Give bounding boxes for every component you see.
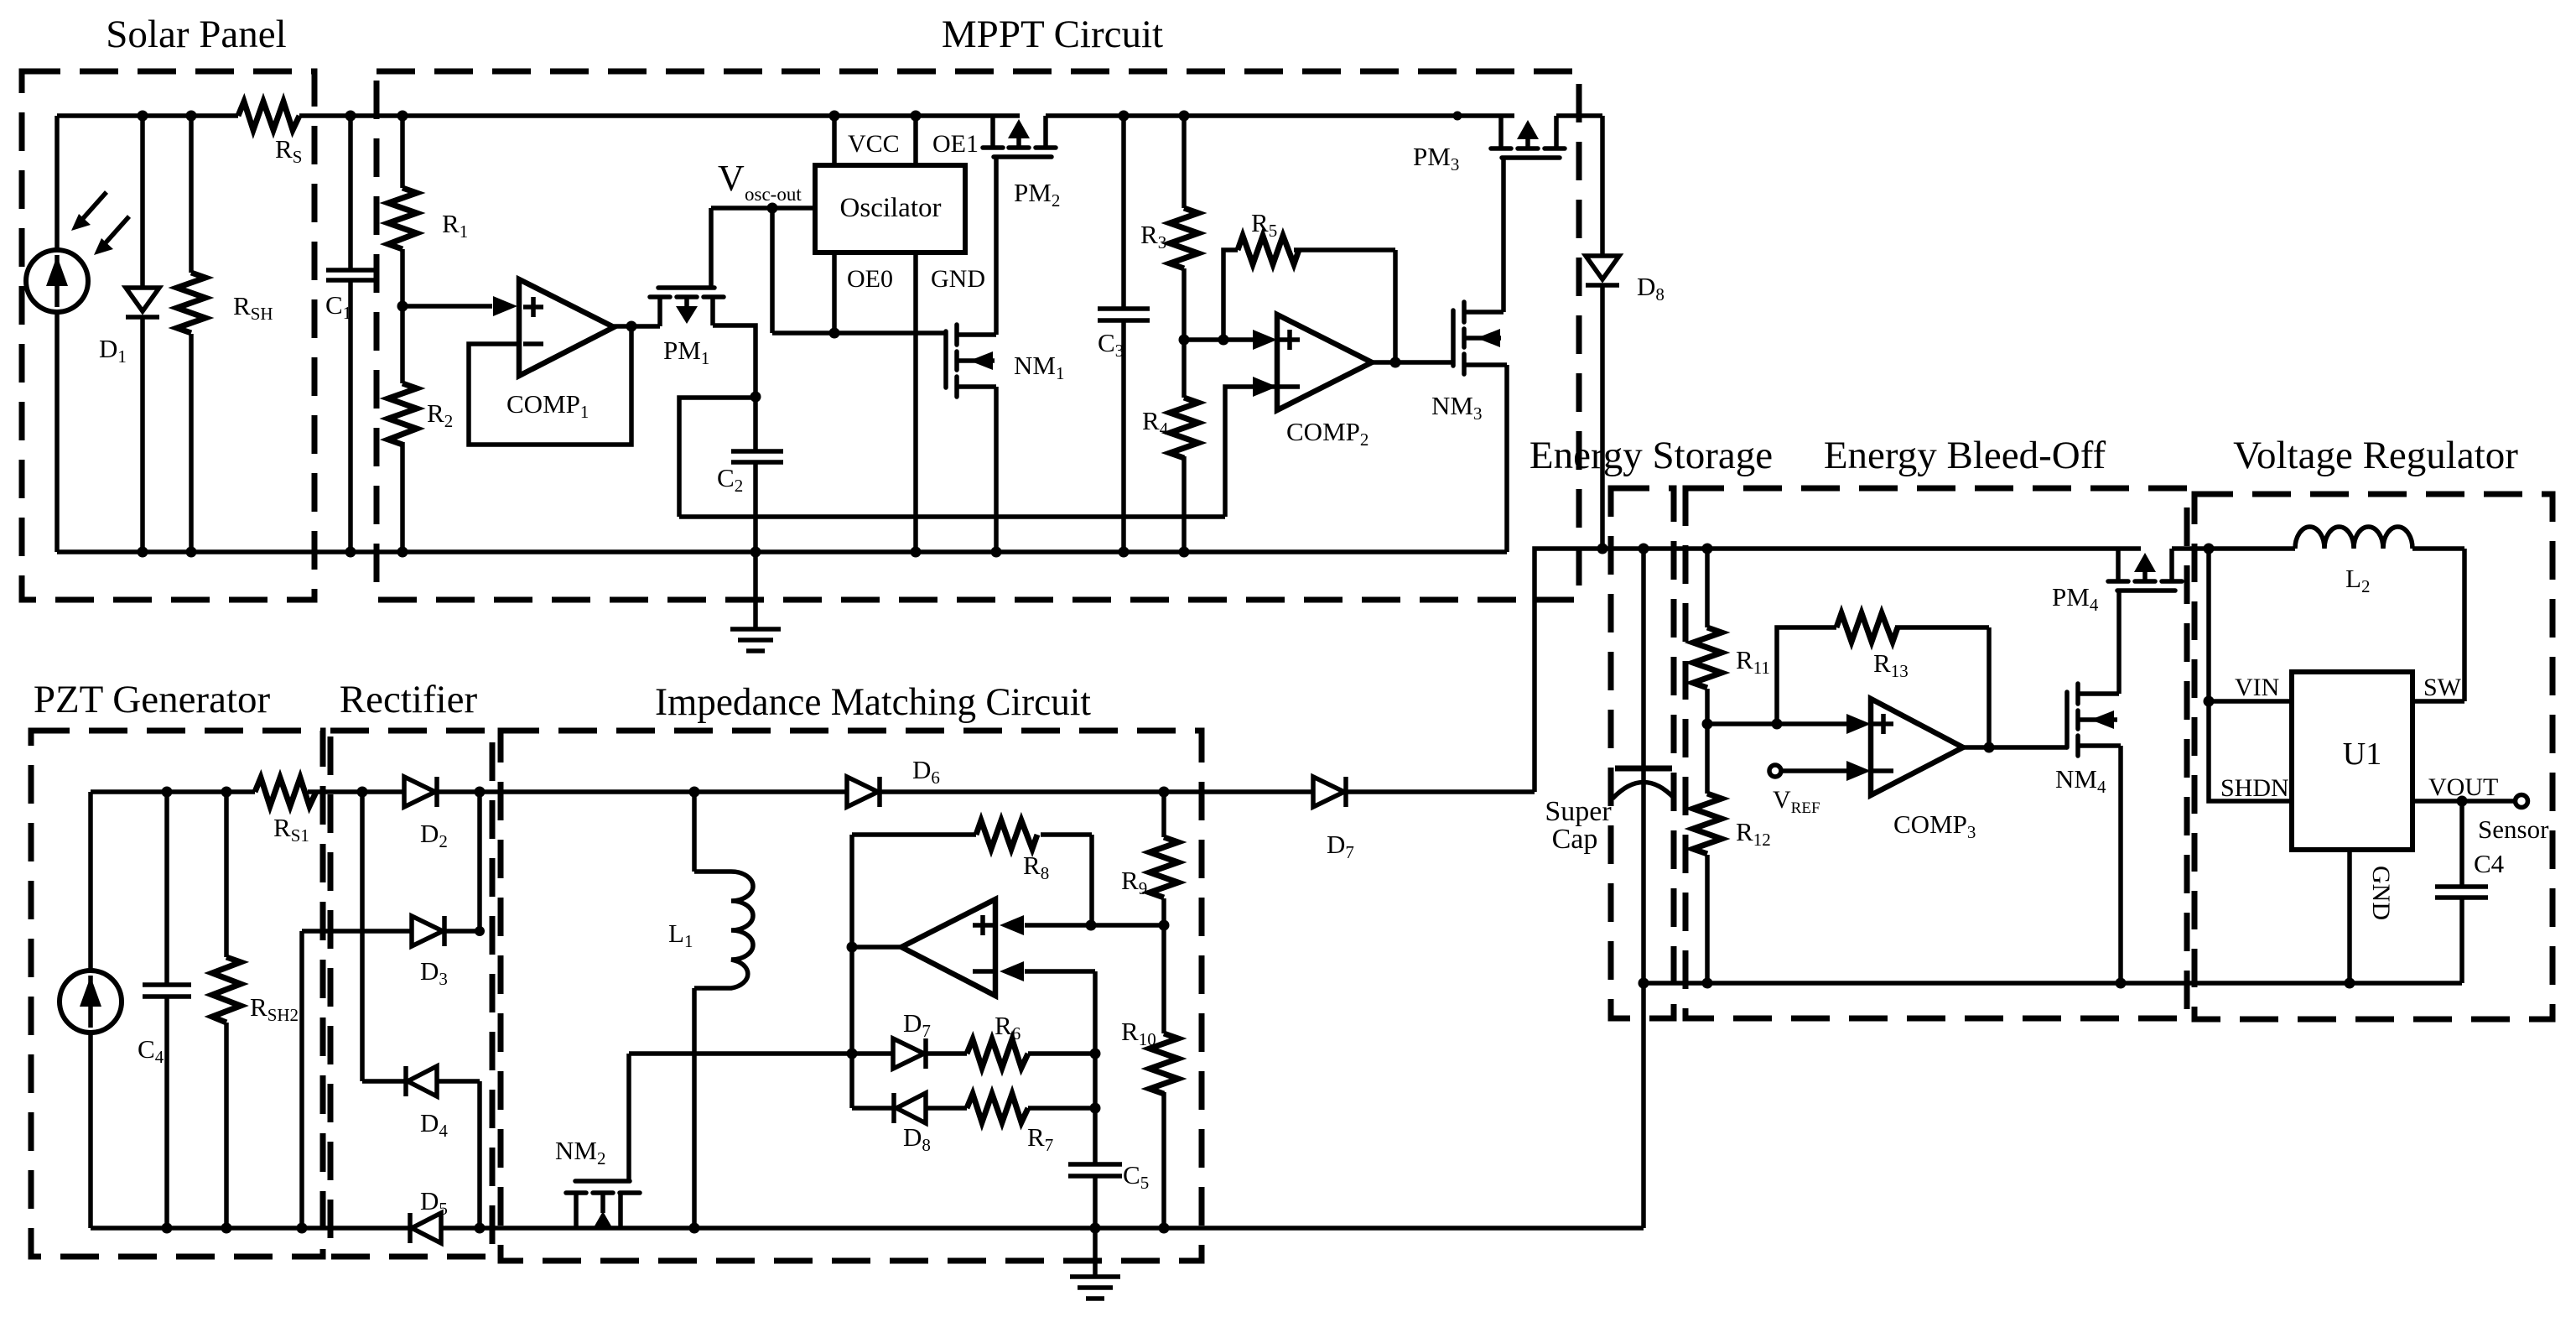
- wire D2 cathode to D3 cathode: [477, 792, 482, 931]
- node COMP1 output: [626, 321, 637, 332]
- node R11 at storage rail: [1702, 544, 1713, 554]
- svg-text:U1: U1: [2343, 736, 2381, 772]
- wire COMP1 feedback loop (output to minus input): [469, 327, 631, 445]
- super capacitor (energy storage): [1613, 549, 1675, 983]
- resistor R12: [1693, 724, 1722, 983]
- current source I1 (solar cell): [26, 116, 88, 552]
- node R7 right: [1090, 1103, 1101, 1114]
- arrowhead COMP3 minus input: [1846, 761, 1871, 781]
- wire COMP2 minus loop: [1225, 387, 1277, 517]
- wire NM4 drain to PM4 gate: [2116, 591, 2122, 694]
- node R10 at rail: [1159, 1223, 1170, 1234]
- transistor PM2 (PMOS): [983, 116, 1056, 157]
- diode D5: [410, 1213, 441, 1243]
- wire C2 bottom to COMP2 minus loop: [679, 514, 1225, 519]
- node D3 cathode: [475, 926, 485, 936]
- MPPT Circuit dashed box: [377, 71, 1579, 600]
- node C5 at rail: [1090, 1223, 1101, 1234]
- svg-text:Voltage Regulator: Voltage Regulator: [2233, 434, 2518, 477]
- wire op-amp plus input (impedance): [1025, 923, 1164, 928]
- svg-text:Energy Bleed-Off: Energy Bleed-Off: [1824, 434, 2106, 477]
- transistor PM1 (PMOS): [650, 208, 724, 326]
- junction dots solar bottom rail: [138, 547, 408, 558]
- wire NM1 drain to PM2 gate: [994, 157, 999, 335]
- arrowhead COMP2 plus input: [1253, 330, 1277, 350]
- Impedance Matching Circuit dashed box: [501, 731, 1202, 1261]
- transistor NM4 (NMOS): [2067, 684, 2121, 983]
- wire D4 anode to D5 anode: [477, 1081, 482, 1228]
- node COMP3 output / R13: [1984, 742, 1995, 753]
- node A (R1-R2 divider tap): [397, 301, 408, 312]
- node on top rail near PM3: [1453, 112, 1462, 121]
- wire COMP3 plus input: [1707, 721, 1847, 726]
- wire PM1 drain to C2: [713, 325, 756, 397]
- wire D3 anode to ground rail: [299, 931, 304, 1228]
- ground (impedance circuit): [1070, 1228, 1120, 1299]
- wire PM4 drain to regulator input: [2172, 546, 2295, 551]
- terminal Sensor: [2516, 795, 2528, 808]
- node C2 at bottom rail: [750, 547, 761, 558]
- diode D1: [126, 116, 159, 552]
- transistor NM2 (NMOS): [566, 1054, 640, 1229]
- terminal VREF: [1769, 765, 1847, 777]
- resistor RSH: [177, 116, 205, 552]
- svg-text:Impedance Matching Circuit: Impedance Matching Circuit: [655, 680, 1091, 724]
- pin VCC (oscillator): [829, 111, 840, 166]
- node regulator input: [2204, 544, 2215, 554]
- op-amp COMP1: [519, 279, 614, 376]
- resistor R8 feedback: [852, 820, 1092, 925]
- wire COMP2 output: [1372, 360, 1453, 365]
- ground (MPPT, below C2): [730, 552, 781, 651]
- arrowhead plus input (impedance op-amp): [1000, 915, 1024, 935]
- wire supercap down to PZT ground rail: [1641, 983, 1646, 1228]
- node L1 top: [689, 787, 700, 798]
- wire rectifier left leg down to D4: [360, 792, 365, 1081]
- current source I2 (PZT): [60, 792, 122, 1228]
- node Vosc-out: [711, 203, 815, 334]
- inductor L1: [694, 792, 753, 1228]
- wire op-amp output (impedance): [852, 945, 901, 950]
- diode D8 (impedance): [894, 1093, 926, 1123]
- pin GND (oscillator): [911, 252, 922, 558]
- svg-text:SHDN: SHDN: [2220, 774, 2289, 802]
- svg-text:COMP2: COMP2: [1286, 417, 1368, 450]
- label Super Cap: [1545, 796, 1612, 855]
- node supercap at bottom rail: [1639, 978, 1649, 989]
- wire COMP1 output: [614, 324, 660, 329]
- wire PM3 drain down right side: [1600, 116, 1605, 549]
- node VIN: [2204, 696, 2215, 707]
- node R6 right: [1090, 1049, 1101, 1059]
- node L1 bottom at rail: [689, 1223, 700, 1234]
- transistor NM3 (NMOS): [1453, 302, 1507, 552]
- node D4 leg at rail: [475, 1223, 486, 1234]
- node output at D7 branch: [847, 1049, 858, 1059]
- wire energy bleed-off bottom rail: [1644, 981, 2462, 986]
- op-amp COMP2: [1277, 315, 1372, 410]
- node D2 cathode: [475, 787, 486, 798]
- resistor RSH2: [212, 787, 241, 1234]
- resistor R9: [1150, 792, 1178, 925]
- wire OE0 to NM1 gate: [772, 330, 946, 336]
- wire op-amp minus input (impedance): [1025, 971, 1095, 1054]
- svg-text:VCC: VCC: [848, 130, 900, 158]
- svg-text:MPPT Circuit: MPPT Circuit: [942, 13, 1163, 56]
- pin OE1 (oscillator): [911, 111, 922, 166]
- diode D3: [302, 916, 480, 946]
- node NM4 source at bottom rail: [2116, 978, 2127, 989]
- arrowhead COMP2 minus input: [1253, 377, 1277, 397]
- pin OE0 (oscillator): [829, 252, 840, 339]
- light arrow 1: [71, 192, 106, 231]
- node D3 anode at rail: [297, 1223, 308, 1234]
- transistor NM1 (NMOS): [946, 325, 996, 552]
- wire bottom rail (solar + MPPT): [57, 549, 1507, 554]
- op-amp COMP (impedance matching): [901, 899, 995, 996]
- resistor RS1: [255, 778, 316, 806]
- node R13 tap on plus wire: [1772, 719, 1783, 730]
- svg-text:GND: GND: [931, 265, 985, 293]
- node B (R3-R4 tap): [1179, 335, 1190, 346]
- resistor R10: [1150, 925, 1178, 1228]
- svg-text:Cap: Cap: [1552, 824, 1598, 855]
- node supercap at storage rail: [1639, 544, 1649, 554]
- wire top rail (solar + MPPT): [57, 113, 1602, 118]
- PZT Generator dashed box: [31, 731, 323, 1257]
- resistor R6: [967, 1039, 1095, 1068]
- resistor R2: [388, 306, 417, 552]
- wire COMP3 output to NM4 gate: [1963, 745, 2067, 750]
- wire output column: [849, 835, 854, 1108]
- node COMP2 output / R5: [1390, 357, 1401, 368]
- svg-text:C4: C4: [2474, 849, 2505, 878]
- Solar Panel dashed box: [22, 71, 314, 600]
- node D6 to R9: [1159, 787, 1170, 798]
- svg-text:SW: SW: [2423, 674, 2462, 701]
- pin VIN wire: [2209, 699, 2292, 704]
- svg-text:COMP3: COMP3: [1893, 809, 1976, 842]
- wire COMP1 plus input: [402, 304, 492, 309]
- wire COMP2 plus input: [1184, 337, 1254, 342]
- resistor R11: [1693, 549, 1722, 724]
- capacitor C1: [326, 116, 375, 552]
- node output at op-amp: [847, 942, 858, 953]
- inductor L2: [2295, 527, 2464, 701]
- svg-text:OE1: OE1: [932, 130, 979, 158]
- svg-text:Energy Storage: Energy Storage: [1529, 434, 1773, 477]
- wire D7 branch: [629, 1051, 967, 1056]
- svg-text:osc-out: osc-out: [745, 184, 802, 205]
- resistor R3: [1170, 111, 1198, 341]
- resistor R7: [967, 1094, 1095, 1122]
- Voltage Regulator dashed box: [2194, 494, 2553, 1019]
- node C (R11-R12 tap): [1702, 719, 1713, 730]
- oscillator U-osc box: [815, 165, 965, 252]
- node GND at rail: [2345, 978, 2355, 989]
- wire energy storage top rail: [1535, 549, 2141, 792]
- svg-text:V: V: [718, 158, 745, 199]
- svg-text:GND: GND: [2367, 866, 2395, 920]
- node VOUT / C4: [2457, 796, 2468, 807]
- diode D7 (impedance): [893, 1038, 926, 1069]
- wire PZT top rail: [91, 789, 1535, 794]
- diode D4: [362, 1066, 480, 1096]
- diode D7 (to energy storage): [1313, 777, 1346, 807]
- svg-text:Solar Panel: Solar Panel: [106, 13, 286, 56]
- node NM1 source at rail: [991, 547, 1002, 558]
- pin SW wire: [2412, 699, 2464, 704]
- svg-text:OE0: OE0: [847, 265, 893, 293]
- resistor RS: [238, 101, 299, 130]
- Energy Storage dashed box: [1611, 488, 1674, 1018]
- wire NM3 drain to PM3 gate: [1501, 158, 1506, 312]
- node R5 tap on plus wire: [1218, 335, 1229, 346]
- capacitor C2: [731, 392, 783, 553]
- node D8 at storage rail: [1597, 544, 1608, 554]
- resistor R1: [388, 116, 417, 306]
- wire minus column down to C5: [1093, 1054, 1098, 1164]
- capacitor C3: [1098, 111, 1150, 558]
- diode D8 (output, near PM3): [1586, 256, 1619, 285]
- pin VOUT wire: [2412, 799, 2516, 804]
- node R9 bottom / plus input: [1159, 920, 1170, 931]
- arrowhead COMP3 plus input: [1846, 714, 1871, 734]
- wire PZT bottom rail: [91, 1226, 1644, 1231]
- resistor R5 feedback: [1223, 236, 1395, 362]
- wire VIN/SHDN left leg: [2209, 549, 2292, 801]
- resistor R13 feedback: [1777, 613, 1989, 747]
- svg-text:Oscilator: Oscilator: [840, 193, 942, 223]
- svg-text:Super: Super: [1545, 796, 1612, 827]
- svg-text:VIN: VIN: [2235, 674, 2279, 701]
- Energy Bleed-Off dashed box: [1685, 488, 2187, 1018]
- resistor R4: [1170, 340, 1198, 558]
- regulator U1 box: [2292, 672, 2412, 850]
- svg-text:COMP1: COMP1: [506, 389, 589, 422]
- wire C2 left loop: [679, 398, 756, 517]
- node R8 tap on plus wire: [1086, 920, 1097, 931]
- capacitor C5: [1068, 1164, 1122, 1228]
- node rectifier input top: [357, 787, 368, 798]
- arrowhead minus input (impedance op-amp): [1000, 961, 1024, 981]
- svg-text:PZT Generator: PZT Generator: [34, 678, 271, 721]
- diode D2: [404, 777, 437, 807]
- svg-text:Rectifier: Rectifier: [340, 678, 478, 721]
- transistor PM3 (PMOS): [1491, 116, 1565, 158]
- node R12 at bottom rail: [1702, 978, 1713, 989]
- light arrow 2: [94, 216, 129, 255]
- svg-text:Sensor: Sensor: [2478, 815, 2549, 844]
- Rectifier dashed box: [330, 731, 492, 1257]
- transistor PM4 (PMOS): [2108, 549, 2182, 591]
- capacitor C4 (PZT): [143, 787, 191, 1234]
- diode D6: [847, 777, 880, 807]
- capacitor C4 (regulator output): [2435, 801, 2488, 983]
- op-amp COMP3: [1871, 699, 1963, 795]
- junction dots solar top rail: [138, 111, 408, 122]
- arrowhead COMP1 plus input: [493, 296, 517, 316]
- wire D8 branch: [852, 1106, 967, 1111]
- pin GND (U1): [2347, 850, 2352, 983]
